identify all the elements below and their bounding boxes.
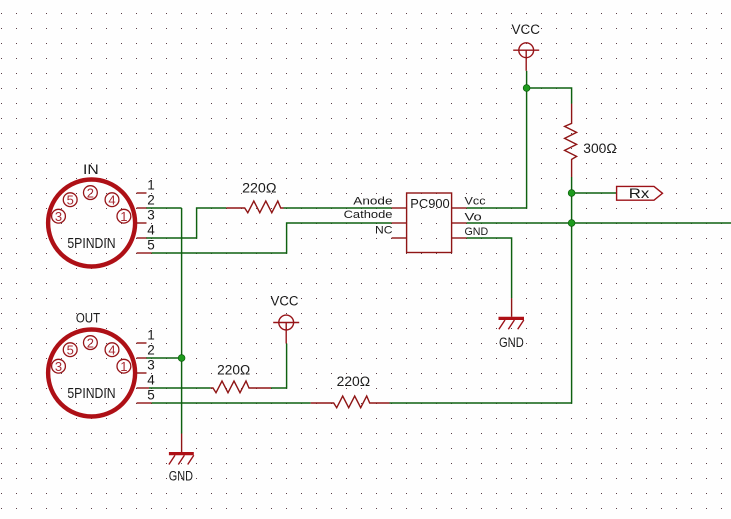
svg-text:OUT: OUT	[76, 310, 100, 325]
wire R4 bottom to Rx node	[571, 177, 573, 193]
wire R2 to VCC symbol (bottom)	[271, 344, 287, 389]
svg-text:5PINDIN: 5PINDIN	[67, 386, 115, 402]
wire R1 to PC900 anode	[284, 207, 392, 209]
svg-text:2: 2	[147, 193, 155, 208]
svg-text:VCC: VCC	[271, 293, 299, 308]
svg-text:4: 4	[147, 373, 155, 388]
svg-text:2: 2	[87, 335, 94, 350]
junction dot at Rx node (571.6,193)	[568, 190, 575, 197]
label VCC (bottom)	[271, 293, 299, 308]
label 5PINDIN (OUT)	[67, 386, 115, 402]
label IN	[83, 162, 99, 177]
svg-text:Rx: Rx	[629, 186, 650, 201]
svg-text:5: 5	[147, 238, 155, 253]
label 220&#937; (R2)	[217, 362, 250, 377]
svg-text:4: 4	[108, 342, 115, 357]
wire IN pin4 up to anode net	[146, 208, 226, 238]
J2 pin circle 1	[117, 359, 131, 373]
label VCC (top)	[512, 22, 541, 37]
label GND (left)	[169, 468, 193, 483]
ground symbol GND (right, U1)	[499, 298, 525, 329]
J1 pin numbers 1-5	[147, 178, 155, 253]
svg-text:1: 1	[147, 178, 155, 193]
J1 pin stubs	[137, 193, 152, 253]
optocoupler U1 PC900 body	[407, 193, 452, 253]
svg-text:5: 5	[147, 388, 155, 403]
label 220&#937; (R3)	[337, 374, 371, 389]
ground symbol GND (left, rail)	[169, 434, 194, 465]
resistor R3 220 ohm (OUT pin5 series)	[311, 396, 390, 408]
pin label Anode	[353, 195, 392, 207]
U1 right pin stubs (Vcc, Vo, GND)	[452, 208, 467, 238]
svg-text:PC900: PC900	[410, 196, 449, 211]
svg-text:300Ω: 300Ω	[583, 141, 616, 156]
svg-text:4: 4	[147, 223, 155, 238]
J1 pin circle 5	[63, 193, 77, 207]
junction dot at VCC node (526.6,88)	[523, 85, 530, 92]
wire OUT pin2 to vertical rail	[146, 357, 182, 359]
resistor R2 220 ohm (OUT pin4)	[211, 381, 271, 393]
J2 pin numbers 1-5	[147, 328, 155, 403]
svg-text:4: 4	[108, 192, 115, 207]
svg-text:3: 3	[55, 359, 62, 374]
connector J1 IN 5PINDIN body	[48, 180, 135, 267]
J1 pin circle 2	[84, 186, 98, 200]
svg-text:2: 2	[87, 185, 94, 200]
wire Rx node to flag	[572, 192, 617, 194]
svg-text:Vo: Vo	[465, 211, 482, 223]
svg-text:1: 1	[147, 328, 155, 343]
J1 pin circle 3	[52, 209, 66, 223]
J2 pin circle 5	[63, 343, 77, 357]
J1 pin circle 4	[105, 193, 119, 207]
svg-text:IN: IN	[83, 162, 99, 177]
svg-text:1: 1	[120, 359, 127, 374]
connector J2 OUT 5PINDIN body	[48, 330, 135, 417]
J2 pin circle 2	[84, 336, 98, 350]
wire Rx node down to R3	[390, 193, 572, 403]
pin label Vcc	[465, 195, 487, 207]
svg-text:3: 3	[147, 208, 155, 223]
svg-text:3: 3	[147, 358, 155, 373]
J2 pin circle 3	[52, 359, 66, 373]
J1 pin circle 1	[117, 209, 131, 223]
svg-text:220Ω: 220Ω	[337, 374, 371, 389]
svg-text:1: 1	[120, 209, 127, 224]
wire R3 to OUT pin5	[152, 402, 311, 404]
svg-text:5: 5	[67, 342, 74, 357]
label GND (right)	[499, 335, 524, 350]
junction dot at Vo/rail crossing (571.6,223)	[568, 220, 575, 227]
wire VCC symbol stem (green part)	[526, 71, 528, 88]
svg-text:Vcc: Vcc	[465, 195, 487, 207]
supply symbol VCC (top)	[513, 43, 539, 71]
svg-text:220Ω: 220Ω	[242, 180, 276, 195]
svg-text:3: 3	[55, 209, 62, 224]
net flag Rx	[617, 186, 663, 200]
label PC900	[410, 196, 449, 211]
label Rx	[629, 186, 650, 201]
U1 left pin stubs (Anode, Cathode, NC)	[392, 208, 407, 238]
J2 pin stubs	[137, 343, 152, 403]
svg-text:GND: GND	[465, 226, 489, 238]
wire PC900 Vcc pin to VCC node	[467, 88, 527, 208]
pin label Vo	[465, 211, 482, 223]
pin label GND (U1 pin)	[465, 226, 489, 238]
wire PC900 Vo output net to right edge	[467, 222, 731, 224]
wire OUT pin4 to R2	[149, 387, 211, 389]
J2 pin circle 4	[105, 343, 119, 357]
J2 pin circle digits	[55, 335, 128, 374]
wire VCC node to R4 top	[527, 88, 572, 104]
wire IN pin2 to vertical rail	[146, 207, 182, 209]
svg-text:VCC: VCC	[512, 22, 541, 37]
wire IN pin5 to PC900 cathode	[152, 223, 392, 253]
label 5PINDIN (IN)	[67, 236, 115, 252]
svg-text:2: 2	[147, 343, 155, 358]
svg-text:5PINDIN: 5PINDIN	[67, 236, 115, 252]
resistor R1 220 ohm (anode series)	[226, 201, 283, 213]
label 220&#937; (R1)	[242, 180, 276, 195]
pin label NC	[375, 225, 393, 237]
J1 pin circle digits	[55, 185, 128, 224]
svg-text:Anode: Anode	[353, 195, 392, 207]
label OUT	[76, 310, 100, 325]
resistor R4 300 ohm (pull-up)	[565, 104, 577, 177]
svg-text:220Ω: 220Ω	[217, 362, 250, 377]
wire vertical rail x=181.6 (IN pin2 / OUT pin2 / GND)	[181, 208, 183, 434]
junction dot at OUT pin2 rail (181.6,358)	[178, 355, 185, 362]
wire PC900 GND pin to ground symbol	[467, 238, 512, 298]
svg-text:GND: GND	[499, 335, 524, 350]
svg-text:GND: GND	[169, 468, 193, 483]
label 300&#937; (R4)	[583, 141, 616, 156]
pin label Cathode	[344, 209, 393, 221]
supply symbol VCC (bottom)	[273, 315, 299, 343]
svg-text:5: 5	[67, 192, 74, 207]
svg-text:Cathode: Cathode	[344, 209, 393, 221]
svg-text:NC: NC	[375, 225, 393, 237]
